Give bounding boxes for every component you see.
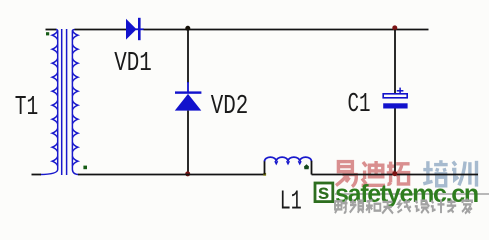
watermark: gray underline	[335, 193, 489, 195]
diode VD1	[126, 18, 144, 40]
node stub (olive mark at L1 left pin)	[263, 173, 266, 176]
node junction (VD2 bottom, dark red)	[185, 171, 190, 176]
wire C1 lower	[394, 109, 396, 175]
transformer T1	[40, 29, 79, 175]
node junction (C1 bottom, dark red)	[392, 171, 397, 176]
polarity dot (primary)	[46, 32, 49, 35]
char Zhuan (gray)	[447, 199, 456, 212]
wire top (VD1 cathode to right end)	[144, 29, 429, 31]
char Xian (gray)	[398, 200, 411, 213]
watermark: safetyemc logo box	[315, 183, 333, 202]
char Tuo (pink)	[387, 162, 410, 185]
label VD2	[211, 92, 249, 121]
wire bottom (L1 to right end)	[312, 174, 479, 176]
label C1	[348, 90, 371, 119]
watermark: pink CJK characters (drawn strokes)	[336, 161, 410, 187]
wire top-left stub (primary pin)	[46, 29, 57, 31]
node junction (VD2 top, black)	[185, 26, 190, 31]
polarity dot (secondary)	[83, 166, 87, 170]
wire bottom-left stub	[32, 174, 42, 176]
svg-text:s: s	[318, 181, 330, 204]
wire C1 upper	[394, 30, 396, 95]
char Pin (gray)	[350, 199, 364, 212]
label T1	[15, 93, 39, 122]
char He (gray)	[366, 200, 380, 213]
char She2 (gray)	[415, 201, 430, 214]
char Pei (blue)	[423, 160, 447, 186]
char Jia (gray)	[462, 199, 472, 214]
char Yi (pink)	[336, 162, 356, 187]
inductor L1	[265, 157, 312, 174]
svg-text:VD2: VD2	[211, 92, 249, 121]
wire VD2 lower	[187, 111, 189, 175]
polarity dot (L1)	[304, 164, 309, 169]
char She (gray)	[335, 199, 348, 213]
svg-text:C1: C1	[348, 90, 371, 119]
svg-text:L1: L1	[280, 188, 302, 215]
label VD1	[114, 49, 152, 78]
char Di (pink)	[362, 161, 385, 185]
wire VD2 upper	[187, 30, 189, 84]
node junction (C1 top, dark red)	[392, 25, 397, 30]
svg-text:VD1: VD1	[114, 49, 152, 78]
wire VD2 pin (blue)	[187, 82, 189, 92]
wire bottom (transformer to L1)	[78, 174, 265, 176]
watermark: gray CJK tagline (drawn strokes)	[335, 199, 472, 214]
diode VD2	[175, 91, 202, 110]
capacitor C1	[383, 88, 407, 109]
char Tian (gray)	[382, 202, 393, 214]
wire top (transformer to VD1 anode)	[75, 29, 127, 31]
char Ji (gray)	[431, 199, 445, 213]
char Xun (blue)	[452, 161, 476, 187]
svg-text:T1: T1	[15, 93, 39, 122]
label L1	[280, 188, 302, 217]
watermark: blue CJK characters (drawn strokes)	[423, 160, 476, 186]
